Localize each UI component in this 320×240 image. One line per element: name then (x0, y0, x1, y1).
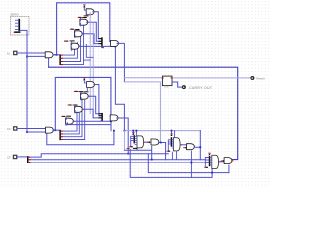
gate G7 middle cascade (80, 93, 88, 99)
stubs G6 (74, 106, 76, 114)
wire ZERO branch to U2 lower input and down around (27, 131, 114, 145)
node group1 out light vertical (160, 142, 162, 144)
gate G3 cascade (80, 19, 88, 25)
wire from ZERO to vertical feed (20, 30, 27, 132)
wire down from bus to group2 output junction (199, 131, 201, 148)
group1 feeds from bus (133, 131, 136, 136)
stubs G7 (80, 92, 82, 100)
gate G1 cascade bottom (71, 43, 79, 49)
splitter bar B1 (101, 37, 103, 47)
splitter S2 bar (59, 130, 61, 140)
glyph dash G7 (80, 91, 83, 93)
red dot B1 bottom (102, 47, 104, 48)
branch to register box (light) (124, 77, 162, 79)
red and black terminal dashes under group1 (127, 147, 129, 149)
splitter S3 bar (27, 156, 29, 163)
splitter bar B2 (101, 113, 103, 121)
group2 bottom stubs (172, 151, 191, 178)
group1 gate2 out (159, 143, 166, 160)
group2 out wire (181, 144, 187, 146)
wire line B left leg down (130, 150, 212, 178)
gate U1 A1 input AND (45, 52, 53, 58)
group1 tall gate input stubs (135, 136, 137, 144)
register box U3 (162, 76, 172, 86)
glyph arrow G4 up (83, 5, 85, 7)
stub F2 lower input (110, 120, 112, 121)
node junction group1 stub on line L2 (151, 159, 153, 161)
group1 ladder rungs (131, 136, 134, 146)
glyph dash G4 lower (85, 15, 88, 17)
group2 tall gate (173, 138, 180, 151)
stubs G1 (71, 42, 73, 50)
svg-text:CF: CF (7, 155, 11, 159)
wire left under cascade (68, 123, 112, 125)
node G1 line junction (115, 46, 117, 48)
wire U2 out to splitter S2 (53, 129, 59, 131)
splitter S1 fan wires (61, 20, 84, 64)
wire U1 output up and across top (53, 3, 111, 55)
group1 tall gate (137, 136, 144, 148)
wire U3 out to carry out pin (172, 82, 182, 87)
stub G4 upper from arrow (84, 7, 86, 10)
node ZERO branch junction (26, 56, 28, 58)
output pin CARRY OUT (182, 85, 186, 89)
node ZERO lower branch (26, 131, 28, 133)
glyph dash G3 (83, 17, 86, 19)
stub G8 upper from arrow (84, 80, 86, 83)
splitter S1 red pin dots (61, 55, 62, 65)
group1 splitter ladder bar (134, 135, 136, 143)
gate G5 middle cascade bottom (66, 118, 74, 124)
wire G1 out long to F lower and down (79, 46, 125, 130)
output pin Result (250, 76, 254, 80)
gate G2 cascade (74, 31, 82, 37)
splitter S3 fan wires (29, 154, 206, 160)
wire G2 out staircase (82, 34, 101, 44)
group2 ladder rungs (168, 140, 170, 151)
glyph dash G1 (71, 40, 74, 42)
group2 tall gate red out (180, 144, 181, 146)
splitter S1 bar (59, 54, 61, 65)
wire long dark bus A to bottom right (49, 67, 238, 159)
group2 gate2 (187, 144, 195, 150)
node junction group2 stub on line L3 (191, 162, 193, 164)
group2 not glyph (184, 147, 186, 149)
group3 arrow glyph (208, 154, 210, 156)
group3 splitter ladder bar (209, 156, 211, 166)
group2 splitter ladder bar (171, 137, 173, 147)
group2 gate2 out junction (194, 147, 200, 160)
svg-text:ZERO: ZERO (10, 13, 19, 17)
stub G4 lower (86, 15, 88, 16)
glyph arrow G5 (63, 115, 65, 117)
wire G5 out long to F2 lower, junction down (73, 121, 111, 130)
red dot B2 bottom (100, 120, 102, 121)
splitter stubs ZERO (15, 20, 18, 29)
constant block ZERO dashed outline (11, 17, 30, 36)
group2 arrow glyph (170, 134, 172, 136)
wire U1 out to splitter S1 (53, 54, 59, 56)
svg-text:CARRY OUT: CARRY OUT (189, 86, 213, 90)
svg-text:A0: A0 (7, 127, 11, 131)
group3 tall gate (212, 155, 219, 168)
group3 tall gate input stubs (210, 158, 212, 166)
svg-text:A1: A1 (7, 51, 11, 55)
red dots middle cascade outputs (73, 85, 95, 122)
bar B1 input stubs black (99, 39, 101, 44)
glyph dash G6 (74, 104, 77, 106)
group2 tall gate input stubs (172, 140, 173, 148)
red dot ZERO (14, 32, 16, 33)
splitter bar inside ZERO (18, 19, 20, 31)
group3 red dash (205, 166, 207, 168)
group1 tall gate red out (144, 141, 145, 143)
red pin marks U3 (162, 77, 172, 79)
gate G8 middle cascade top (87, 82, 95, 88)
light verticals pair from top cascade to lower cluster (90, 13, 93, 118)
wire G8 out staircase to bar B2 (94, 85, 101, 116)
input pin CF (13, 155, 18, 159)
gate F (111, 40, 119, 46)
glyph arrow G7 (75, 90, 77, 92)
wire A0 to gate U2 (17, 128, 46, 130)
glyph dash G8 lower (85, 91, 88, 93)
svg-text:D-8: D-8 (165, 86, 170, 89)
wire G7 out staircase (88, 96, 101, 114)
fan light wire CF low (29, 162, 206, 164)
light vertical from F out area down to group1 (123, 131, 125, 151)
splitter S2 fan wires (61, 100, 85, 140)
node G5 junction (110, 120, 112, 122)
bar B2 input stubs black (99, 114, 101, 118)
wire CF to splitter S3 (17, 156, 27, 158)
gate U2 A0 input AND (46, 127, 54, 133)
group3 gate2 (224, 158, 232, 164)
red dot F out (117, 42, 118, 44)
node bus junctions on 130.6 (124, 130, 126, 132)
glyph arrow G3 (79, 16, 81, 18)
group2 feeds from bus (172, 131, 175, 138)
stub F lower input (111, 45, 113, 47)
stubs G2 (74, 30, 76, 38)
node junction F2 line on L1 (127, 153, 129, 155)
stubs G5 (65, 117, 67, 125)
splitter S3 red dots (29, 157, 30, 162)
wire G3 out staircase (87, 22, 101, 41)
node U2 out (54, 129, 56, 131)
group2 red dash (167, 150, 169, 152)
red dot F2 out (117, 117, 118, 119)
wire F2 out right and down to bottom line (117, 118, 128, 154)
glyph arrow G6 (69, 104, 71, 106)
wire G6 out staircase (82, 109, 101, 118)
group1 red dash (130, 146, 132, 148)
node junction line A and line B riser (211, 172, 213, 174)
node U1 out (56, 54, 58, 56)
input pin A1 (13, 51, 18, 55)
branch light down to bottom group (124, 82, 160, 143)
group3 tall gate red out (219, 161, 220, 163)
wire light bus junction into bottom row (124, 130, 200, 132)
stub G8 lower (86, 88, 88, 92)
gate F2 (110, 115, 118, 121)
group1 not glyph (148, 141, 150, 143)
glyph arrow G2 (71, 28, 73, 30)
glyph dash G2 (76, 29, 79, 31)
wire F out down with two branches (118, 43, 125, 82)
wire A1 to gate (17, 52, 45, 54)
glyph arrow G8 up (83, 78, 85, 80)
group3 ladder rungs (205, 158, 209, 167)
group1 arrow glyph (132, 133, 134, 135)
wire ZERO branch to A1 gate lower input (27, 56, 49, 67)
group3 out wire (220, 161, 225, 163)
glyph dash G5 (67, 115, 70, 117)
svg-text:Result: Result (256, 77, 264, 81)
glyph arrow G1 (65, 40, 68, 42)
group3 gate2 bottom stub (228, 165, 230, 173)
input pin A0 (13, 126, 18, 130)
group3 not glyph (222, 160, 224, 162)
corner jog wires joining fan columns to light columns (84, 45, 94, 61)
ground bar under ZERO (14, 31, 20, 33)
red dots gate outputs top cascade (79, 12, 94, 46)
group3 gate2 red out (232, 160, 233, 162)
wire light bus to result through register (172, 77, 250, 79)
wire G4 out staircase to splitter bar B1 (93, 12, 101, 39)
wire line A (148, 154, 229, 173)
gate G4 cascade top (86, 9, 94, 15)
wire into group1 gate2 lower from light vertical (124, 146, 151, 159)
group1 out wire (144, 141, 151, 143)
splitter S2 red pin dots (61, 131, 62, 139)
wire U2 output up across middle box (53, 77, 111, 130)
gate G6 middle cascade (75, 106, 83, 112)
group1 gate2 (151, 139, 159, 145)
stubs G3 (80, 18, 82, 26)
